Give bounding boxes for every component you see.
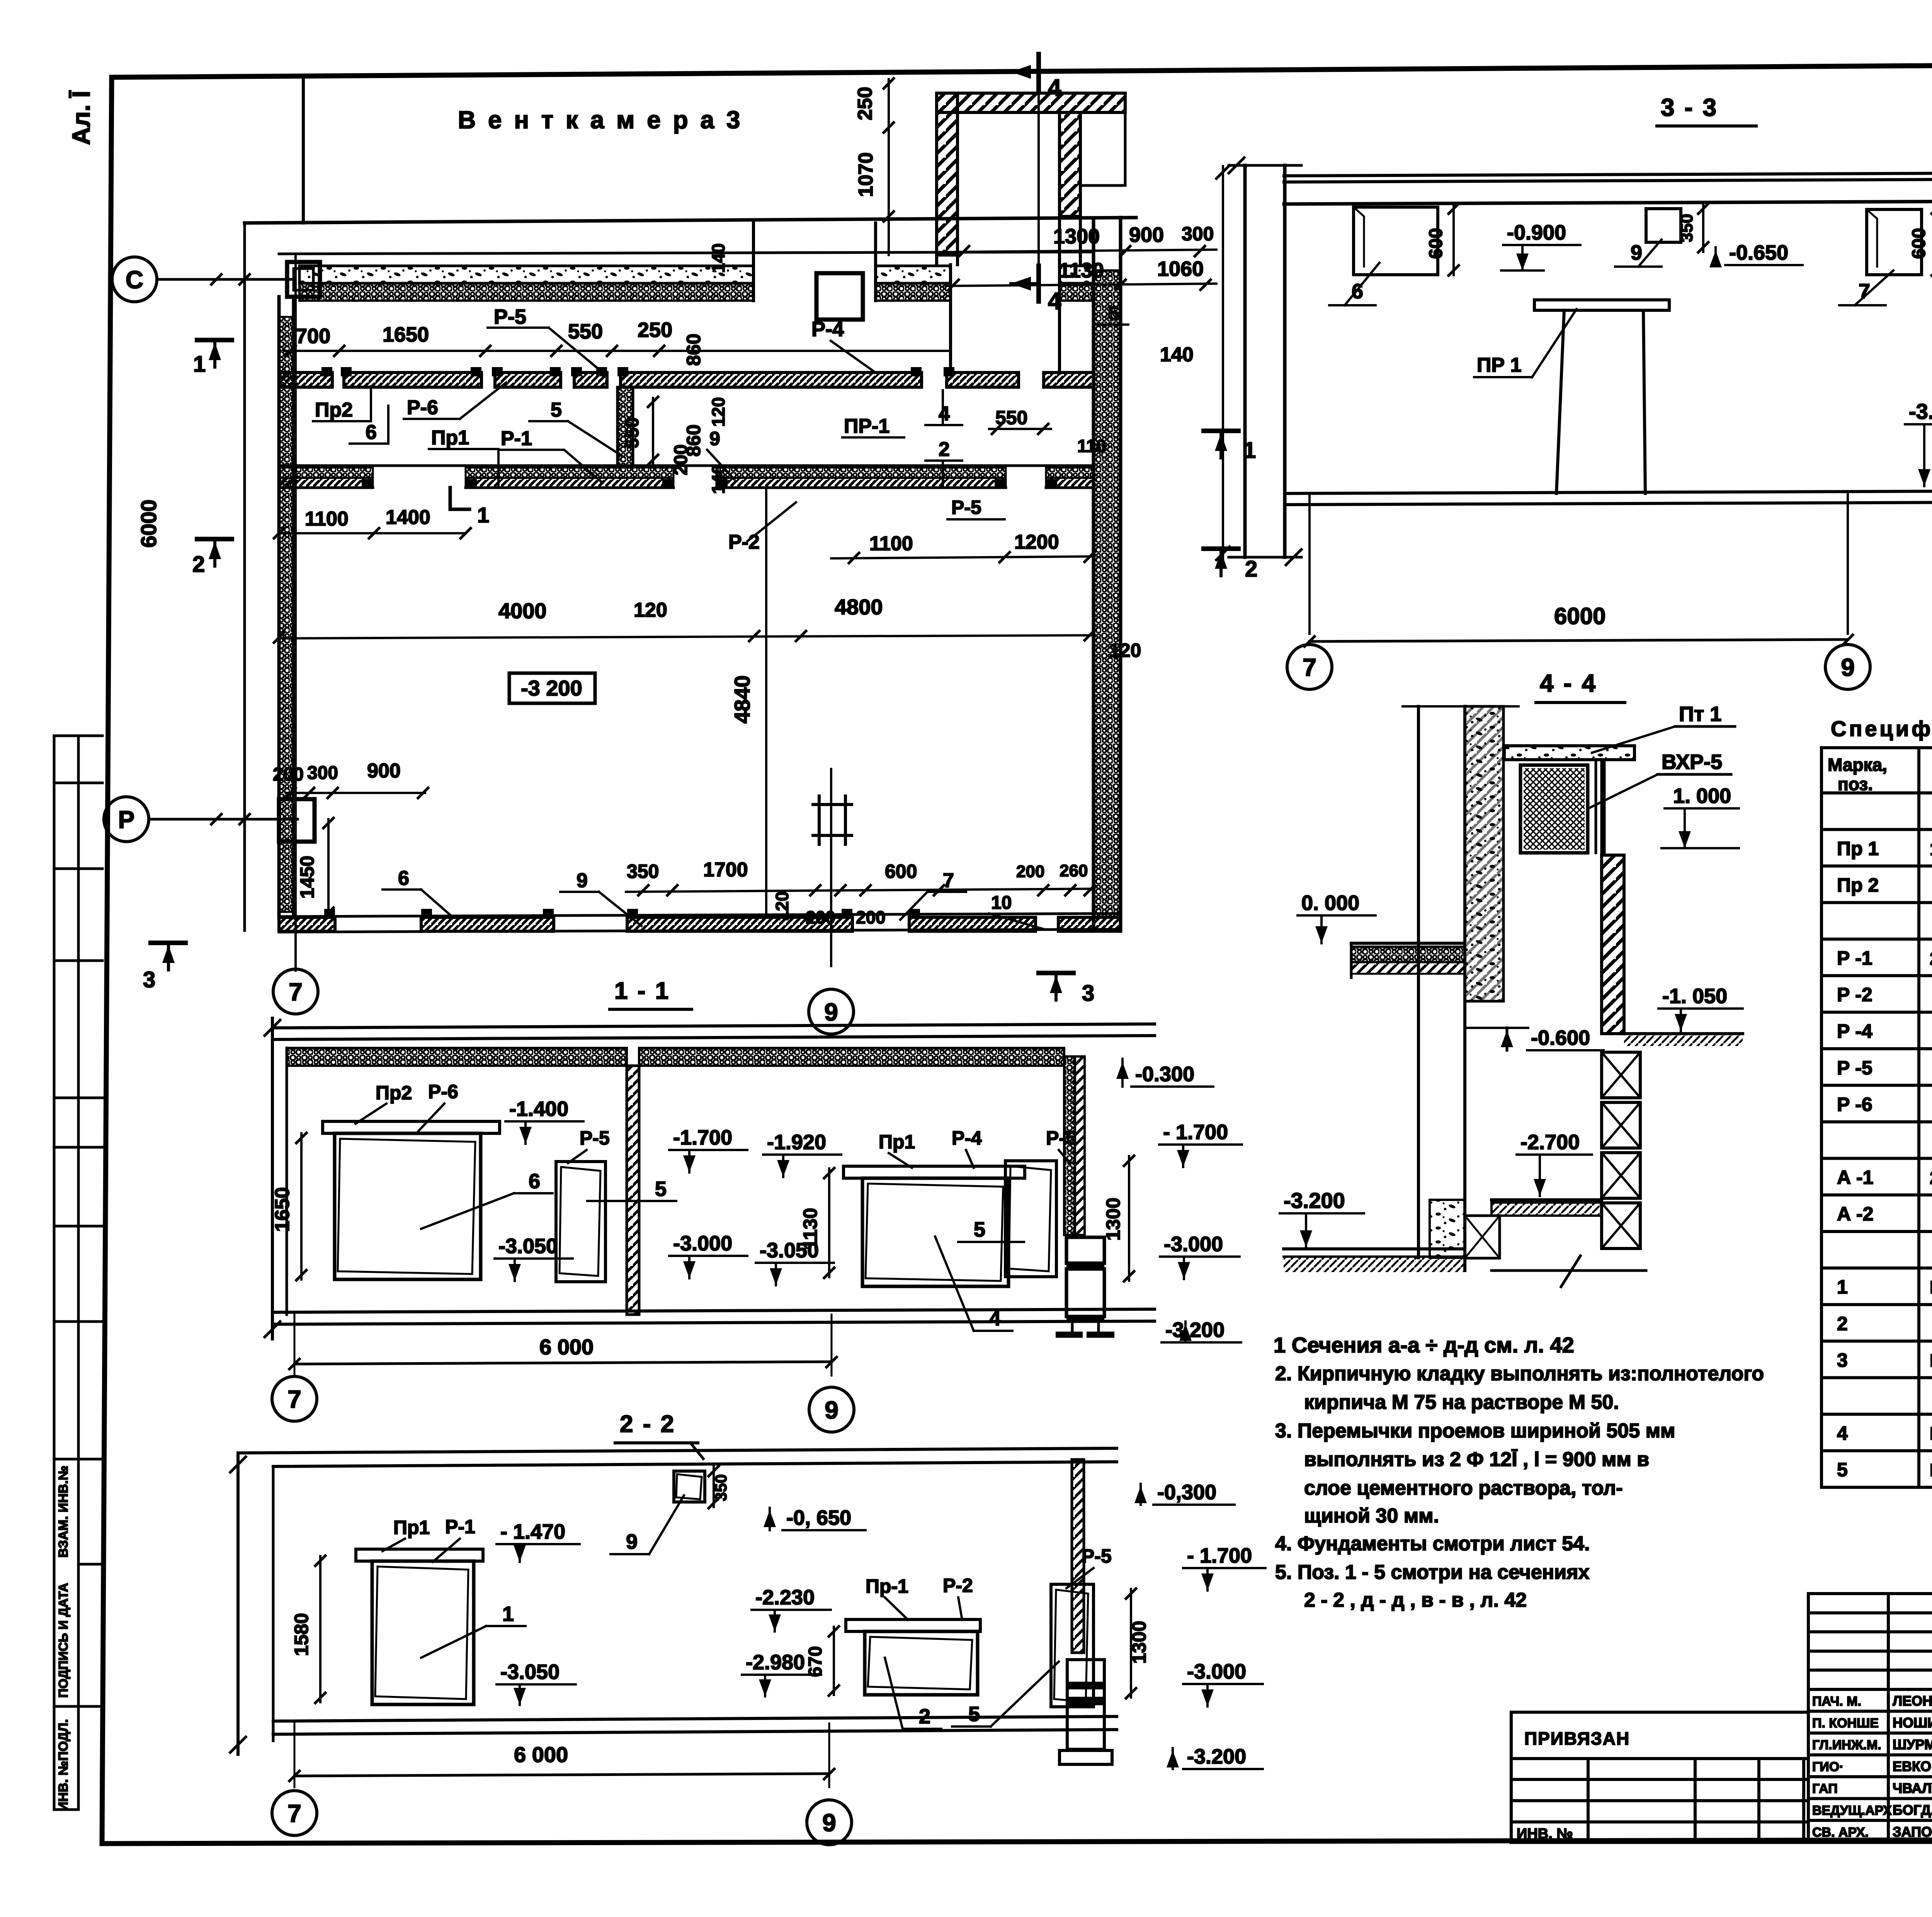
sec1-1 mid wall <box>627 1066 639 1315</box>
svg-text:3: 3 <box>143 967 155 992</box>
svg-text:860: 860 <box>683 333 704 366</box>
svg-text:-3.050: -3.050 <box>498 1235 558 1258</box>
svg-text:300: 300 <box>1182 223 1214 245</box>
svg-text:ЧВАЛУН: ЧВАЛУН <box>1893 1780 1932 1796</box>
svg-text:1. 000: 1. 000 <box>1673 784 1731 808</box>
svg-text:С: С <box>126 266 143 294</box>
opening 4 lintel <box>844 1166 1025 1178</box>
opening 2 lintel <box>846 1619 980 1631</box>
svg-text:-3.200: -3.200 <box>1284 1188 1345 1213</box>
svg-text:900: 900 <box>1129 223 1164 247</box>
svg-text:Пт 1: Пт 1 <box>1679 703 1721 726</box>
privyazan extension box <box>1511 1712 1808 1842</box>
svg-text:1060: 1060 <box>1157 257 1204 281</box>
svg-text:7: 7 <box>1859 280 1870 303</box>
pr1 plate <box>1534 300 1669 310</box>
pr1 stem <box>1556 310 1564 493</box>
-2.700 slab <box>1492 1198 1602 1201</box>
sec3-3 opening 9 <box>1646 209 1681 242</box>
mesh box BXP-5 <box>1520 765 1588 853</box>
sec2-2 top slab <box>238 1448 1117 1453</box>
mesh frame lines <box>1595 760 1597 853</box>
svg-text:-1.920: -1.920 <box>767 1131 826 1154</box>
svg-text:ГОСТ 5781 - 82: ГОСТ 5781 - 82 <box>1930 1460 1932 1480</box>
niche column <box>816 273 863 320</box>
upper duct right wall <box>1060 112 1080 216</box>
opening 1 rect <box>372 1561 474 1704</box>
svg-text:1200: 1200 <box>1014 531 1059 553</box>
svg-text:3: 3 <box>1082 981 1094 1006</box>
svg-text:НОШИНА: НОШИНА <box>1893 1715 1932 1731</box>
svg-text:ГЛ.ИНЖ.М.: ГЛ.ИНЖ.М. <box>1812 1738 1881 1752</box>
dim chain 200 300 900 <box>286 792 425 794</box>
svg-text:350: 350 <box>1677 214 1696 242</box>
svg-text:250: 250 <box>854 87 876 121</box>
svg-text:3. Перемычки проемов шир: 3. Перемычки проемов шириной 505 мм <box>1275 1420 1675 1442</box>
leader 7 sec33 <box>1855 270 1893 305</box>
wall above plan from frame <box>302 77 305 223</box>
svg-text:-2.230: -2.230 <box>755 1586 815 1609</box>
svg-text:ПР 1: ПР 1 <box>1477 354 1521 376</box>
dim 1650 vertical <box>300 1133 303 1279</box>
second wall markers <box>362 479 372 488</box>
svg-text:слое цементного раствора,: слое цементного раствора, тол- <box>1304 1477 1623 1499</box>
svg-text:5. Поз. 1 - 5 смотри на: 5. Поз. 1 - 5 смотри на сечениях <box>1275 1561 1589 1584</box>
svg-text:9: 9 <box>1631 241 1642 264</box>
svg-text:-3.000: -3.000 <box>1187 1660 1246 1683</box>
opening 4 rect <box>862 1178 1009 1286</box>
sec3-3 left column <box>1243 165 1247 557</box>
svg-text:6: 6 <box>529 1170 540 1193</box>
svg-text:ПОДПИСЬ И ДАТА: ПОДПИСЬ И ДАТА <box>56 1583 70 1698</box>
svg-text:1580: 1580 <box>291 1613 312 1656</box>
svg-text:ГОСТ 10140 - 80: ГОСТ 10140 - 80 <box>1930 1351 1932 1371</box>
svg-text:-3.200: -3.200 <box>1909 399 1932 424</box>
svg-text:ВЕДУЩ.АРХ: ВЕДУЩ.АРХ <box>1812 1803 1892 1818</box>
opening 6 lintel <box>323 1121 500 1133</box>
floor slab 0.000 <box>1351 942 1465 945</box>
svg-text:ГИО·: ГИО· <box>1812 1760 1844 1774</box>
sheet bottom border <box>102 1839 1932 1844</box>
svg-text:Пр1: Пр1 <box>431 427 469 449</box>
svg-text:ВХР-5: ВХР-5 <box>1662 750 1722 774</box>
sec3-3 left dim line <box>1222 166 1224 560</box>
section mark 3 bottom right <box>1039 971 1073 975</box>
sec2-2 right wall hatched <box>1072 1459 1084 1653</box>
plan right wall <box>1092 219 1095 930</box>
svg-text:-0.600: -0.600 <box>1531 1026 1590 1050</box>
det44 wall inner lines <box>1417 706 1420 1258</box>
svg-text:9: 9 <box>825 1396 838 1424</box>
svg-text:2.290 - 4. вып.1 л.7: 2.290 - 4. вып.1 л.7 <box>1930 1168 1932 1188</box>
title block left rows <box>1808 1613 1932 1820</box>
svg-text:1 - 1: 1 - 1 <box>614 978 670 1004</box>
svg-text:Р -6: Р -6 <box>1837 1094 1872 1115</box>
section mark 1 in plan <box>450 488 469 509</box>
section mark 4 upper <box>1036 54 1041 90</box>
svg-text:-3.200: -3.200 <box>1165 1318 1225 1342</box>
svg-text:Р: Р <box>118 806 135 833</box>
svg-text:ШУРМУЗИНА: ШУРМУЗИНА <box>1893 1737 1932 1752</box>
svg-text:1650: 1650 <box>271 1187 294 1232</box>
svg-text:Спецификация элементов прито: Спецификация элементов приточной венткам… <box>1831 716 1932 741</box>
svg-text:9: 9 <box>626 1530 638 1553</box>
svg-text:4: 4 <box>1048 75 1061 101</box>
svg-text:-1. 050: -1. 050 <box>1662 985 1727 1008</box>
dim 600 left with -0.900 <box>1452 204 1455 275</box>
opening P-5 sec22 <box>1051 1584 1094 1707</box>
svg-text:Р-5: Р-5 <box>1082 1545 1112 1567</box>
footing speckle <box>1430 1200 1465 1258</box>
svg-text:Ал. Ī: Ал. Ī <box>67 90 95 145</box>
svg-text:6000: 6000 <box>1554 603 1605 629</box>
svg-text:7: 7 <box>287 1800 301 1827</box>
top-left corner column <box>287 262 320 297</box>
mid wall stub <box>617 387 633 466</box>
axis C line <box>158 278 294 281</box>
bottom dim line <box>626 889 1094 892</box>
sec3-3 axes <box>1308 493 1311 634</box>
plan dim chain 1130-1060 <box>946 284 1216 286</box>
svg-text:ГОСТ 24454 - 80 Е: ГОСТ 24454 - 80 Е <box>1930 1277 1932 1298</box>
svg-text:Р-5: Р-5 <box>1046 1127 1076 1149</box>
plan dim chain top left <box>284 350 951 352</box>
svg-text:5: 5 <box>974 1218 985 1241</box>
axis 7 line in plan <box>294 255 297 966</box>
dim 670 vertical <box>833 1627 835 1695</box>
svg-text:-1.400: -1.400 <box>509 1097 568 1121</box>
svg-text:600: 600 <box>885 861 917 882</box>
svg-text:1: 1 <box>502 1602 514 1626</box>
dim 350 vertical sec22 <box>713 1466 715 1507</box>
svg-text:3 - 3: 3 - 3 <box>1661 94 1718 121</box>
spec table grid <box>1821 748 1932 1487</box>
svg-text:ПРИВЯЗАН: ПРИВЯЗАН <box>1524 1728 1630 1749</box>
axis circle 7 sec33 <box>1287 645 1332 689</box>
section mark 2 right outside <box>1204 546 1238 551</box>
svg-text:-0,300: -0,300 <box>1157 1481 1216 1504</box>
title block outer box <box>1808 1594 1932 1842</box>
second interior wall <box>280 464 1094 467</box>
svg-text:300: 300 <box>307 763 338 783</box>
dim chain 1100 1200 right <box>831 556 1094 558</box>
svg-text:4000: 4000 <box>498 599 547 623</box>
sec3-3 opening 7 <box>1867 209 1922 275</box>
roof slab speckled band mid <box>876 266 951 283</box>
svg-text:Р -1: Р -1 <box>1837 947 1872 969</box>
niche walls at top <box>752 223 755 301</box>
roof slab speckled band left <box>299 266 753 283</box>
axis circle 9 sec11 <box>809 1387 854 1432</box>
svg-text:-3 200: -3 200 <box>521 676 582 700</box>
sec3-3 opening 6 <box>1354 207 1438 275</box>
svg-text:Пр2: Пр2 <box>376 1082 412 1104</box>
x-block small left <box>1465 1216 1500 1258</box>
sec2-2 break mark top <box>692 1444 703 1459</box>
svg-text:ЗАПОВХИНА: ЗАПОВХИНА <box>1893 1824 1932 1840</box>
svg-text:выполнять из 2 Ф 12Ī , l =: выполнять из 2 Ф 12Ī , l = 900 мм в <box>1304 1448 1649 1471</box>
svg-text:кирпича М 75 на растворе: кирпича М 75 на растворе М 50. <box>1304 1391 1619 1414</box>
opening 9 top <box>674 1471 705 1502</box>
svg-text:4840: 4840 <box>730 675 754 724</box>
svg-text:Пр1: Пр1 <box>879 1131 915 1153</box>
dim 4000 120 4800 chain <box>279 635 1094 638</box>
plan dim chain top right 1300-900-300 <box>956 250 1216 252</box>
svg-text:140: 140 <box>708 243 728 273</box>
svg-text:-3.000: -3.000 <box>673 1232 732 1255</box>
section mark 2 left outside <box>197 537 232 541</box>
svg-text:Р-6: Р-6 <box>407 396 438 419</box>
svg-text:2: 2 <box>1837 1313 1848 1334</box>
svg-text:Р-1: Р-1 <box>501 427 532 450</box>
axis circle 7 sec22 <box>272 1791 317 1835</box>
svg-text:Пр 2: Пр 2 <box>1837 874 1879 896</box>
svg-text:Пр1: Пр1 <box>393 1517 430 1538</box>
svg-text:120: 120 <box>708 397 728 427</box>
svg-text:5: 5 <box>968 1703 980 1726</box>
sec1-1 right wall <box>1064 1056 1075 1235</box>
section mark 4 lower <box>1036 266 1041 301</box>
svg-text:Пр 1: Пр 1 <box>1837 838 1879 859</box>
svg-text:4: 4 <box>939 403 950 425</box>
axis circle 9 sec22 <box>807 1800 852 1845</box>
dim 1300 vertical right <box>1128 1156 1130 1281</box>
pt1 plate <box>1504 746 1634 760</box>
svg-text:4. Фундаменты смотри лис: 4. Фундаменты смотри лист 54. <box>1275 1533 1590 1555</box>
column symbol at 9 axis <box>813 796 852 844</box>
svg-text:5: 5 <box>1837 1459 1848 1481</box>
svg-text:ГОСТ 5336 - 80: ГОСТ 5336 - 80 <box>1930 1424 1932 1444</box>
floor -3.200 <box>1284 1247 1465 1250</box>
svg-text:2. Кирпичную кладку выпол: 2. Кирпичную кладку выполнять из:полноте… <box>1275 1362 1764 1385</box>
svg-text:6000: 6000 <box>136 500 161 548</box>
svg-text:5: 5 <box>551 399 562 421</box>
svg-text:СВ. АРХ.: СВ. АРХ. <box>1812 1825 1869 1840</box>
dim 1580 vertical <box>319 1556 321 1702</box>
svg-text:120: 120 <box>1109 640 1141 661</box>
svg-text:860: 860 <box>683 424 704 456</box>
svg-text:ЕВКО: ЕВКО <box>1893 1759 1931 1774</box>
sheet left border <box>102 77 112 1842</box>
svg-text:6 000: 6 000 <box>539 1335 594 1359</box>
svg-text:1700: 1700 <box>703 859 748 881</box>
svg-text:1100: 1100 <box>869 532 913 555</box>
det44 top break <box>1403 705 1519 708</box>
svg-text:ВЗАМ. ИНВ.№: ВЗАМ. ИНВ.№ <box>56 1466 71 1558</box>
svg-text:-0.300: -0.300 <box>1135 1063 1194 1086</box>
plan left wall <box>277 297 281 918</box>
plan bottom wall hatched <box>279 913 1121 917</box>
upper duct left wall <box>937 93 957 255</box>
svg-text:1400: 1400 <box>386 506 430 529</box>
upper interior wall hatched <box>280 373 332 387</box>
svg-text:- 1.700: - 1.700 <box>1187 1544 1252 1567</box>
axis circle 9 plan <box>809 989 854 1034</box>
left column at P axis <box>279 799 315 842</box>
section mark 1 left outside <box>197 338 232 342</box>
ground at -1.050 <box>1624 1032 1743 1035</box>
svg-text:-2.980: -2.980 <box>746 1651 805 1674</box>
section 4 cut line through duct <box>1037 90 1040 266</box>
sec3-3 ceiling <box>1284 173 1932 176</box>
svg-text:1450: 1450 <box>296 856 318 898</box>
svg-text:0. 000: 0. 000 <box>1301 891 1359 915</box>
upper duct top wall <box>937 93 1125 112</box>
axis C circle <box>112 257 157 302</box>
svg-text:-1.700: -1.700 <box>673 1126 732 1149</box>
left margin stamp ladder <box>53 736 56 1810</box>
svg-text:ПАЧ. М.: ПАЧ. М. <box>1812 1694 1861 1709</box>
axis P line <box>150 818 298 821</box>
svg-text:6: 6 <box>366 421 377 444</box>
svg-text:ИНВ. №ПОДЛ.: ИНВ. №ПОДЛ. <box>56 1719 71 1811</box>
opening 5 right sec11 <box>1005 1161 1056 1277</box>
svg-text:140: 140 <box>1160 344 1194 366</box>
svg-text:Р-5: Р-5 <box>580 1127 610 1149</box>
svg-text:10: 10 <box>991 893 1012 913</box>
title block vertical lines <box>1888 1594 1932 1842</box>
duct shaft walls down to interior wall <box>949 265 952 373</box>
svg-text:4: 4 <box>1048 288 1061 315</box>
svg-text:4 - 4: 4 - 4 <box>1540 669 1597 697</box>
bottom wall markers <box>324 909 335 917</box>
svg-text:-3.050: -3.050 <box>500 1660 560 1684</box>
sec1-1 floor <box>276 1309 1155 1312</box>
svg-text:Р-5: Р-5 <box>494 305 526 328</box>
svg-text:6: 6 <box>398 867 409 890</box>
svg-text:1: 1 <box>1837 1276 1848 1298</box>
sheet top border <box>112 61 1932 77</box>
svg-text:Р-4: Р-4 <box>952 1127 982 1149</box>
dim chain 1100 1400 left <box>279 532 466 534</box>
top slab upper line <box>279 252 1094 254</box>
svg-text:7: 7 <box>1303 653 1316 681</box>
svg-text:2: 2 <box>1245 556 1257 582</box>
roof insulation pebble band left <box>299 283 753 301</box>
svg-text:ПР-1: ПР-1 <box>844 415 889 437</box>
svg-text:Пр2: Пр2 <box>315 399 353 421</box>
plan top boundary line <box>245 218 1136 223</box>
opening 1 lintel <box>356 1549 483 1561</box>
axis P circle <box>104 797 149 842</box>
sec1-1 left frame <box>271 1018 274 1339</box>
svg-text:1130: 1130 <box>799 1208 821 1250</box>
svg-text:1300: 1300 <box>1128 1621 1150 1664</box>
svg-text:7: 7 <box>287 1385 301 1413</box>
svg-text:6 000: 6 000 <box>514 1742 568 1767</box>
axis circle 7 plan <box>294 966 297 971</box>
svg-text:600: 600 <box>1909 228 1929 259</box>
leader 9 sec33 <box>1638 240 1662 267</box>
section mark 3 bottom left <box>151 941 185 945</box>
svg-text:700: 700 <box>296 325 330 348</box>
svg-text:2 - 2 , д - д , в - в ,: 2 - 2 , д - д , в - в , л. 42 <box>1304 1589 1527 1611</box>
svg-text:2 - 2: 2 - 2 <box>620 1411 675 1437</box>
bottom break mark <box>1492 1269 1646 1272</box>
svg-text:4: 4 <box>1837 1422 1848 1444</box>
svg-text:Р-4: Р-4 <box>811 318 844 341</box>
extension line 4840 <box>765 488 767 917</box>
svg-text:А -2: А -2 <box>1837 1203 1873 1225</box>
svg-text:щиной 30 мм.: щиной 30 мм. <box>1304 1505 1439 1527</box>
svg-text:А -1: А -1 <box>1837 1167 1873 1188</box>
svg-text:600: 600 <box>1426 228 1446 259</box>
dim 350 and -0.650 <box>1702 204 1704 252</box>
sec2-2 right column striped <box>1067 1660 1104 1698</box>
svg-text:250: 250 <box>638 318 672 342</box>
svg-text:ИНВ. №: ИНВ. № <box>1517 1826 1573 1842</box>
svg-text:200: 200 <box>1016 862 1044 881</box>
svg-text:- 1.470: - 1.470 <box>500 1520 565 1543</box>
svg-text:350: 350 <box>712 1474 730 1501</box>
sec2-2 left frame <box>236 1453 240 1754</box>
svg-text:200: 200 <box>273 764 304 785</box>
roof slab speckled band right <box>1060 266 1094 283</box>
upper duct outer lines <box>1124 93 1127 185</box>
svg-text:поз.: поз. <box>1838 774 1873 794</box>
dim 6000 sec33 <box>1310 640 1848 641</box>
svg-text:7: 7 <box>289 978 303 1006</box>
plan left dim line 6000 <box>243 223 246 930</box>
svg-text:260: 260 <box>1060 861 1088 880</box>
svg-text:Пр-1: Пр-1 <box>866 1575 908 1597</box>
svg-text:1300: 1300 <box>1102 1197 1124 1240</box>
svg-text:2: 2 <box>939 438 950 461</box>
dim 1450 vertical <box>327 819 330 917</box>
svg-text:1. 438 - 10. вып.1: 1. 438 - 10. вып.1 <box>1930 839 1932 859</box>
svg-text:221-1-443.85 АС03 01: 221-1-443.85 АС03 01 <box>1930 949 1932 969</box>
svg-text:1: 1 <box>477 503 489 527</box>
svg-text:-0.900: -0.900 <box>1507 221 1566 244</box>
svg-text:Р -2: Р -2 <box>1837 984 1872 1005</box>
svg-text:-2.700: -2.700 <box>1520 1131 1580 1154</box>
svg-text:6: 6 <box>1352 280 1363 303</box>
level box -3.200 <box>509 673 595 703</box>
det44 wall concrete strip <box>1465 706 1503 1001</box>
axis circle 7 sec11 <box>272 1376 317 1421</box>
svg-text:2: 2 <box>192 552 205 577</box>
axis circle 9 sec33 <box>1825 645 1870 689</box>
svg-text:9: 9 <box>824 998 838 1026</box>
dim 6000 sec22 <box>294 1774 829 1776</box>
sec1-1 top slab <box>276 1024 1155 1028</box>
svg-text:1 Сечения а-а ÷ д-д см. л: 1 Сечения а-а ÷ д-д см. л. 42 <box>1274 1333 1574 1357</box>
sec2-2 floor <box>273 1716 1117 1721</box>
svg-text:-0, 650: -0, 650 <box>786 1506 851 1529</box>
svg-text:3: 3 <box>1837 1349 1848 1371</box>
svg-text:ЛЕОНОВ: ЛЕОНОВ <box>1893 1693 1932 1709</box>
wall opening markers <box>321 367 332 376</box>
leader 6 <box>1345 263 1379 305</box>
svg-text:-0.650: -0.650 <box>1729 241 1788 264</box>
dim 1130 vertical <box>828 1169 830 1277</box>
svg-text:7: 7 <box>943 869 954 892</box>
dim 6000 sec11 <box>294 1362 832 1364</box>
svg-text:Р-5: Р-5 <box>951 497 981 518</box>
duct vertical dim line <box>888 79 890 255</box>
svg-text:550: 550 <box>568 320 603 343</box>
svg-text:Р -5: Р -5 <box>1837 1057 1872 1078</box>
svg-text:200: 200 <box>856 907 886 927</box>
sec1-1 insulation band <box>287 1048 627 1066</box>
right wall line <box>1600 760 1603 855</box>
x-block column right <box>1602 1052 1640 1098</box>
sec1-1 right column striped <box>1066 1237 1104 1263</box>
dim 1300 vertical sec22 <box>1130 1589 1132 1698</box>
svg-text:120: 120 <box>634 599 667 621</box>
svg-text:1650: 1650 <box>383 323 429 346</box>
svg-text:Р -4: Р -4 <box>1837 1021 1872 1042</box>
